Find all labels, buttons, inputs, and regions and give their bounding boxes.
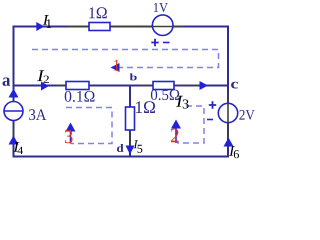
mesh loop 3 arrowhead (up) [171,120,181,129]
V2 plus mark [209,101,216,108]
node d label [117,144,123,152]
mesh loop 2 arrow tail [70,129,72,144]
wire right gray leads of V2 [227,93,229,139]
R4 value label 1 ohm [136,101,155,113]
resistor R1 1 ohm (top) [89,23,110,31]
wire top (corner above a to corner above c) [13,26,228,28]
resistor R4 1 ohm (vertical) [126,107,135,130]
wire left gray lead below 3A source [13,121,15,138]
mesh loop 1 arrowhead (left) [111,63,120,72]
current I4 arrowhead (up, left wire) [9,136,19,145]
node b label [130,73,137,80]
current I4 label [13,142,19,152]
current I2 label [37,70,44,81]
wire top lead gray R1 to V1 [110,26,151,28]
resistor R2 0.1 ohm [66,82,89,90]
wire top lead gray right of V1 [174,26,185,28]
wire middle (a-b-c) [13,85,228,87]
IS 3A direction arrowhead (up, below node a) [9,89,19,98]
mesh loop 1 dashed path [32,50,219,68]
V2 wire through circle [227,103,229,122]
node c label [231,82,238,89]
R1 value label 1 ohm [89,7,106,18]
wire middle gray lead left of R2 [56,85,66,87]
current I3 arrowhead (right, middle wire before c) [200,81,209,90]
IS 3A horizontal bar [5,110,23,112]
current I2 arrowhead (right, middle wire) [41,82,49,91]
current I1 arrowhead (right, top wire) [36,22,44,31]
mesh loop 2 arrowhead (up) [66,123,76,132]
mesh loop 2 red label 3 [65,130,73,143]
voltage source V1 1V circle [152,15,173,36]
wire bottom (d rail) [13,156,229,158]
R3 value label 0.5 ohm [151,90,179,101]
V2 value label 2V [239,110,254,120]
current I6 arrowhead (up, right wire) [224,138,234,147]
current I1 label [43,15,49,25]
R2 value label 0.1 ohm [65,91,95,102]
IS value label 3A [29,109,46,120]
wire mid-vertical gray lead below R4 [129,130,131,146]
current I5 arrowhead (down, middle vertical wire) [126,146,135,155]
V1 value label 1V [154,3,168,12]
current source IS 3A circle [4,102,23,121]
wire left (through a down to bottom-left corner) [13,26,15,158]
node a label [3,77,11,85]
mesh loop 3 dashed path [177,106,204,143]
V1 wire through circle [153,26,173,28]
wire middle gray lead b to R3 [140,85,153,87]
wire top lead gray left of R1 [68,26,89,28]
mesh loop 3 arrow tail [175,126,177,143]
current I5 label [134,140,138,148]
resistor R3 0.5 ohm [153,82,174,90]
voltage source V2 2V circle [218,103,237,122]
wire middle vertical (b-d) [129,86,131,158]
current I3 label [176,96,183,107]
mesh loop 1 red label 1 [114,60,119,71]
mesh loop 3 red label 2 [171,129,179,143]
V1 plus mark [151,39,158,46]
current I6 label [229,146,235,156]
wire middle gray lead right of R3 [174,85,199,87]
V1 minus mark [163,42,170,44]
V2 minus mark [207,119,213,121]
wire right (c down to bottom-right corner) [227,26,229,158]
mesh loop 2 dashed path [66,108,112,144]
